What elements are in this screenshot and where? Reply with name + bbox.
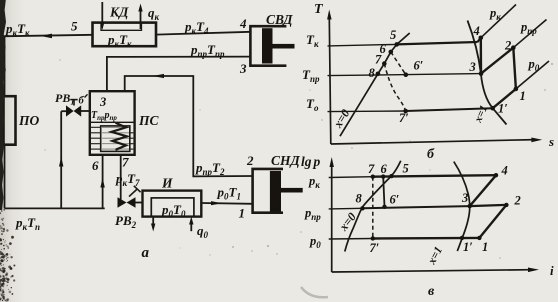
svg-text:7′: 7′ — [399, 111, 409, 125]
svg-text:3: 3 — [461, 191, 468, 205]
svg-text:6: 6 — [92, 158, 99, 173]
svg-text:3: 3 — [239, 61, 247, 76]
svg-text:7: 7 — [368, 162, 375, 176]
svg-text:s: s — [548, 134, 554, 149]
svg-text:4: 4 — [473, 24, 480, 38]
svg-text:а: а — [142, 245, 150, 261]
svg-text:7: 7 — [122, 155, 129, 170]
svg-text:5: 5 — [71, 19, 78, 34]
svg-text:8: 8 — [356, 192, 363, 206]
svg-text:7′: 7′ — [370, 241, 380, 255]
svg-text:6′: 6′ — [390, 193, 400, 207]
svg-text:lgр: lgр — [301, 154, 321, 169]
svg-text:ПО: ПО — [18, 113, 40, 128]
svg-text:3: 3 — [469, 60, 476, 74]
svg-text:i: i — [550, 263, 554, 278]
svg-text:5: 5 — [403, 162, 409, 176]
svg-text:в: в — [428, 284, 435, 299]
svg-text:2: 2 — [504, 39, 511, 53]
svg-text:7: 7 — [375, 53, 382, 67]
svg-text:2: 2 — [514, 194, 521, 208]
svg-text:1: 1 — [239, 206, 246, 221]
svg-text:5: 5 — [390, 28, 396, 42]
svg-text:КД: КД — [109, 5, 129, 20]
svg-text:1′: 1′ — [498, 102, 508, 116]
svg-text:Т: Т — [314, 2, 324, 17]
svg-text:4: 4 — [239, 16, 247, 31]
svg-text:ПС: ПС — [138, 113, 160, 128]
svg-text:СВД: СВД — [266, 12, 293, 27]
svg-text:1: 1 — [482, 240, 488, 254]
svg-text:6: 6 — [381, 162, 388, 176]
svg-text:И: И — [161, 176, 173, 191]
svg-text:б: б — [427, 147, 435, 162]
svg-text:1: 1 — [520, 89, 526, 103]
svg-text:2: 2 — [246, 153, 254, 168]
svg-text:3: 3 — [99, 95, 106, 109]
svg-text:СНД: СНД — [271, 153, 301, 168]
svg-text:4: 4 — [501, 164, 508, 178]
svg-text:8: 8 — [369, 66, 376, 80]
svg-text:1′: 1′ — [463, 240, 473, 254]
svg-text:6′: 6′ — [414, 59, 424, 73]
svg-text:б: б — [79, 96, 85, 107]
